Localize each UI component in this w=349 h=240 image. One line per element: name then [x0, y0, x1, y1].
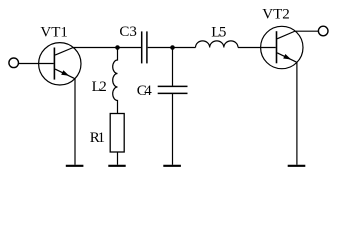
svg-text:L2: L2	[92, 79, 107, 95]
svg-text:C3: C3	[119, 24, 137, 40]
svg-text:R1: R1	[90, 130, 105, 146]
svg-text:L5: L5	[211, 25, 226, 41]
svg-text:VT1: VT1	[40, 25, 68, 41]
svg-text:VT2: VT2	[262, 7, 290, 23]
